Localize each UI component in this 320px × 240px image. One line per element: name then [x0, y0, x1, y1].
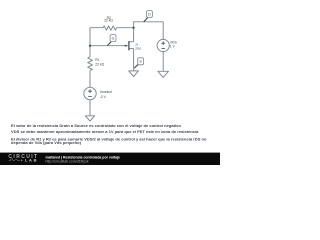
- svg-text:El valor de la resistencia Dra: El valor de la resistencia Drain a Sourc…: [11, 123, 181, 128]
- wire gate horizontal: [90, 45, 125, 47]
- resistor R2 zigzag: [103, 26, 117, 30]
- probe G box: [110, 35, 116, 42]
- wire R1 bottom to Vcontrol: [89, 71, 91, 88]
- svg-text:http://circuitlab.com/c53fy1k: http://circuitlab.com/c53fy1k: [46, 160, 89, 164]
- voltage source V1 Vcontrol circle: [84, 87, 96, 99]
- svg-text:Vcontrol: Vcontrol: [100, 90, 113, 94]
- transistor J1 gate arrow shaft: [124, 45, 126, 47]
- transistor J1 source lead: [129, 48, 133, 50]
- probe S box: [138, 58, 144, 65]
- svg-text:-3 V: -3 V: [100, 95, 107, 99]
- svg-text:LAB: LAB: [25, 158, 38, 163]
- ground below JFET source: [129, 71, 139, 77]
- wire JFET source vertical: [133, 49, 135, 71]
- logo waveform: [9, 159, 23, 162]
- svg-text:22 kΩ: 22 kΩ: [104, 19, 113, 23]
- wire VDS bottom to ground: [162, 52, 164, 72]
- ground below Vcontrol: [85, 116, 94, 121]
- svg-text:VDS se debe mantener aproximad: VDS se debe mantener aproximadamente men…: [11, 129, 199, 134]
- svg-text:G: G: [112, 37, 115, 41]
- wire R2 right lead to drain node: [117, 27, 134, 29]
- svg-text:22 kΩ: 22 kΩ: [95, 62, 104, 66]
- source V2 plus minus: [161, 41, 165, 48]
- node junction at gate wire left: [89, 45, 91, 47]
- probe D box: [147, 11, 153, 18]
- node junction at R2/drain: [133, 27, 135, 29]
- svg-text:dependa de Vds (para Vds peque: dependa de Vds (para Vds pequeño): [11, 140, 82, 145]
- probe S stem: [134, 64, 138, 68]
- wire left vertical + top wire left lead: [90, 28, 103, 57]
- transistor J1 drain lead: [129, 41, 133, 43]
- source V1 plus minus: [88, 89, 92, 96]
- svg-text:J310: J310: [135, 46, 142, 50]
- probe D stem: [144, 17, 148, 22]
- transistor J1 channel bar: [128, 41, 129, 50]
- footer bar: [0, 153, 220, 165]
- wire Vcontrol bottom to ground: [89, 100, 91, 116]
- resistor R1 zigzag: [88, 57, 93, 71]
- wire drain vertical and top right run to VDS: [134, 22, 164, 42]
- ground below VDS: [158, 71, 169, 77]
- voltage source V2 VDS circle: [157, 39, 169, 51]
- svg-text:1 V: 1 V: [170, 45, 176, 49]
- probe G stem: [107, 41, 111, 45]
- transistor J1 gate arrow: [125, 45, 128, 47]
